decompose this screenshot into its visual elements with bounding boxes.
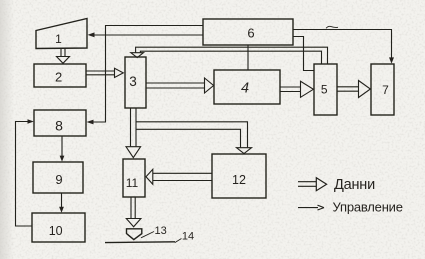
block 3 (125, 57, 146, 108)
svg-text:12: 12 (232, 173, 246, 187)
svg-text:6: 6 (247, 26, 254, 41)
svg-text:Данни: Данни (334, 177, 375, 193)
data bus 3 to 12 (136, 122, 248, 148)
svg-text:7: 7 (382, 83, 389, 97)
leader line 14 (175, 239, 182, 243)
svg-text:Управление: Управление (333, 200, 403, 215)
pen element 13 (127, 229, 142, 240)
svg-text:8: 8 (55, 118, 63, 134)
arrowhead into block 10 top (59, 207, 64, 213)
data bus 12 to 11 (153, 173, 212, 180)
block 4 (214, 70, 280, 104)
svg-text:4: 4 (241, 81, 249, 97)
svg-text:14: 14 (182, 230, 194, 242)
svg-text:11: 11 (126, 176, 139, 190)
svg-text:9: 9 (55, 172, 62, 187)
data bus 3 to 11 (131, 108, 137, 146)
data bus 1 to 2 (61, 49, 65, 57)
wire control 6 to 5 (293, 37, 314, 71)
stray mark (326, 26, 338, 28)
data bus 5 to 3 (136, 47, 328, 63)
block 11 (123, 159, 145, 197)
data bus 11 to pen (131, 197, 135, 218)
arrowhead into block 1 (88, 32, 95, 37)
legend data arrow (298, 182, 316, 187)
svg-text:3: 3 (129, 74, 137, 89)
wire control 6 to 1 (94, 34, 203, 36)
arrowhead into block 9 top (60, 156, 65, 162)
data bus 4 to 5 (280, 87, 300, 92)
wire control 10 to 8 feedback (16, 122, 33, 227)
svg-text:10: 10 (49, 224, 63, 238)
arrowhead into block 8 left (28, 119, 34, 124)
data bus 5 to 7 (337, 87, 358, 91)
block 6 (203, 19, 293, 45)
data bus 3 to 4 (146, 83, 204, 88)
data bus 2 to 3 (86, 71, 114, 75)
svg-text:13: 13 (154, 225, 166, 237)
svg-text:5: 5 (321, 83, 328, 97)
svg-text:1: 1 (55, 32, 62, 46)
wire control 6 to 4 (247, 45, 249, 70)
paper line 14 (105, 241, 175, 244)
block 2 (34, 64, 86, 87)
wire control 6 to 7 (293, 30, 392, 59)
svg-text:2: 2 (55, 70, 62, 85)
block 9 (33, 162, 83, 193)
block 8 (34, 110, 86, 136)
block 7 (371, 64, 394, 115)
block 10 (32, 213, 85, 242)
legend control arrow (298, 207, 318, 209)
block 12 (212, 154, 266, 198)
arrowhead into block 7 top (389, 57, 394, 63)
arrowhead into block 8 right (87, 120, 94, 125)
block 5 (314, 64, 337, 115)
wire control 9 to 10 (61, 193, 63, 209)
wire control 6 to 8 (93, 26, 203, 123)
leader line 13 (141, 232, 154, 238)
wire control 8 to 9 (61, 137, 63, 158)
block 1 (trapezoid) (36, 19, 87, 49)
